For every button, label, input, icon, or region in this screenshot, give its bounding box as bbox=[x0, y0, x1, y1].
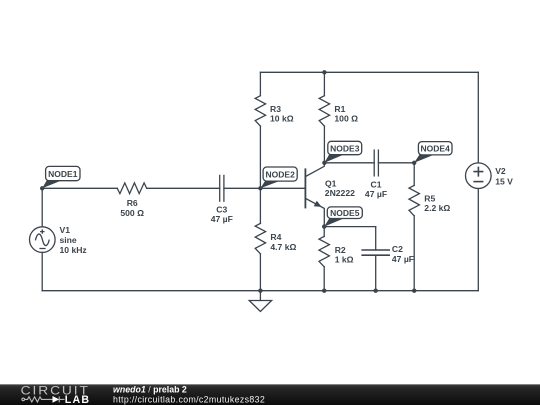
svg-text:http://circuitlab.com/c2mutuke: http://circuitlab.com/c2mutukezs832 bbox=[113, 395, 265, 405]
svg-text:V2: V2 bbox=[495, 166, 506, 176]
svg-text:500 Ω: 500 Ω bbox=[120, 208, 144, 218]
svg-text:C2: C2 bbox=[392, 244, 403, 254]
svg-text:2N2222: 2N2222 bbox=[325, 188, 355, 198]
svg-text:10 kHz: 10 kHz bbox=[60, 245, 87, 255]
svg-text:Q1: Q1 bbox=[325, 178, 337, 188]
svg-text:NODE4: NODE4 bbox=[421, 144, 451, 154]
svg-text:sine: sine bbox=[60, 235, 77, 245]
svg-text:1 kΩ: 1 kΩ bbox=[335, 254, 354, 264]
svg-text:100 Ω: 100 Ω bbox=[334, 114, 358, 124]
svg-text:NODE5: NODE5 bbox=[330, 208, 360, 218]
svg-text:R2: R2 bbox=[335, 245, 346, 255]
svg-text:R5: R5 bbox=[424, 194, 435, 204]
svg-text:NODE3: NODE3 bbox=[330, 143, 360, 153]
svg-text:LAB: LAB bbox=[65, 394, 90, 405]
svg-text:10 kΩ: 10 kΩ bbox=[270, 114, 294, 124]
svg-text:47 µF: 47 µF bbox=[211, 214, 233, 224]
svg-text:C3: C3 bbox=[216, 204, 227, 214]
svg-text:wnedo1 / prelab 2: wnedo1 / prelab 2 bbox=[113, 385, 187, 395]
svg-text:47 µF: 47 µF bbox=[365, 189, 387, 199]
svg-text:NODE2: NODE2 bbox=[266, 169, 296, 179]
svg-text:R4: R4 bbox=[270, 232, 281, 242]
svg-text:47 µF: 47 µF bbox=[392, 254, 414, 264]
svg-text:R3: R3 bbox=[270, 104, 281, 114]
svg-text:2.2 kΩ: 2.2 kΩ bbox=[424, 203, 450, 213]
svg-text:NODE1: NODE1 bbox=[48, 169, 78, 179]
svg-text:4.7 kΩ: 4.7 kΩ bbox=[270, 242, 296, 252]
svg-text:R6: R6 bbox=[127, 198, 138, 208]
svg-text:C1: C1 bbox=[371, 179, 382, 189]
svg-text:R1: R1 bbox=[334, 104, 345, 114]
svg-text:V1: V1 bbox=[60, 225, 71, 235]
svg-text:15 V: 15 V bbox=[495, 176, 513, 186]
